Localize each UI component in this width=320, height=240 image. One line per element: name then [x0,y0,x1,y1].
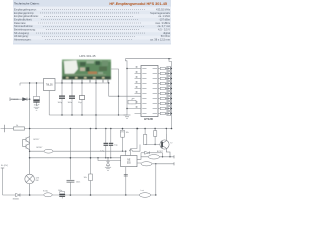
node caps on +5 wire [61,82,62,83]
ground under C1 [34,107,40,110]
fuse F1 [44,193,52,197]
wire supply drop [29,99,31,138]
resistor R6 [143,129,146,145]
wire bottom rail [3,194,156,196]
table header text [14,2,167,6]
LED D16 row7 [158,97,172,101]
diode D1 [23,98,28,101]
svg-text:1N4001: 1N4001 [11,99,19,101]
wire contact row [137,162,174,165]
cap C8 on riser [67,158,75,195]
lamp La1 [25,158,35,195]
diode D2 on rail [16,193,21,196]
oscillator resistor R osc [128,99,136,105]
table rows [14,7,171,41]
diode D3 flyback [141,151,163,156]
relay coil K1 [148,155,159,159]
LED D13 row4 [158,82,172,86]
wire pins to left bus [127,69,135,109]
wire input diode branch [10,98,30,100]
node diode junction [29,98,31,100]
terminal B- [2,168,4,195]
LED D15 row6 [158,92,172,96]
svg-text:1N4001: 1N4001 [13,198,20,200]
transistor Q2 [160,134,170,157]
svg-text:NE: NE [127,159,131,161]
svg-text:100n: 100n [58,190,62,192]
svg-text:T2: T2 [170,142,172,144]
terminal B+ [4,125,6,133]
diode D4 riser [106,158,109,167]
svg-text:HT12D: HT12D [144,117,153,121]
LED D14 row5 [158,87,172,91]
cap C7 [59,192,65,199]
IC left pin stubs [127,69,141,114]
ground under D4 [105,167,111,170]
svg-text:10k: 10k [126,132,129,134]
svg-text:HF-Empfangsmodul HFS 301-45: HF-Empfangsmodul HFS 301-45 [109,2,167,6]
node C1 tap [36,82,37,83]
wire emitter row [30,157,121,159]
svg-text:78L05: 78L05 [46,84,54,87]
svg-text:BC517: BC517 [34,139,40,141]
regulator U1 78L05 [44,79,56,91]
svg-text:ca. 38 x 12,5 mm: ca. 38 x 12,5 mm [150,38,170,42]
svg-text:100n: 100n [76,181,80,183]
wire coil feed [137,157,174,160]
cap C3 electrolytic [68,83,76,115]
wire +5 feed down [95,83,97,129]
switch S3 oval [44,149,53,153]
relay contact S1 [141,162,152,166]
ground under IC left bus [124,115,131,119]
transistor Q1 darlington [23,137,30,159]
LED D12 row3 [158,77,172,81]
wire base row with switch oval [30,145,140,152]
svg-text:100n: 100n [68,102,72,104]
LED D10 row1 [158,67,172,71]
technical data table panel [13,0,171,45]
svg-text:Si 1A: Si 1A [43,190,48,193]
wire base link [145,144,161,146]
wire antenna stub from PCB [111,69,119,115]
svg-text:+5V: +5V [120,132,124,134]
cap C2 electrolytic [58,83,66,115]
wire LED feed elbow [169,59,172,62]
cap C4 [78,83,85,115]
wire data line to IC [109,83,141,96]
node rail junctions [29,128,31,130]
svg-text:100µF: 100µF [34,105,40,107]
wire 555 gnd pin [125,167,127,195]
svg-text:BC547: BC547 [37,147,43,149]
wire 555 top pins [126,129,137,156]
IC pin name marks [142,69,157,114]
svg-text:HFS 301-45: HFS 301-45 [79,54,96,58]
module pins [62,80,108,84]
terminal ticks right [173,155,175,158]
node caps on gnd bus [61,114,62,115]
node LED rail joins [171,68,172,114]
input terminal [9,97,11,101]
resistor R1 [14,127,25,130]
wire left vertical bus [126,66,128,115]
resistor R8 pull-up [121,129,125,152]
svg-text:5W: 5W [36,180,39,182]
resistor R7 [154,129,157,145]
svg-text:B- (0V): B- (0V) [1,165,8,167]
LED D18 row9 [158,107,172,111]
wire 555 left pin [98,158,121,161]
wire regulator input [20,83,44,86]
wire regulator output [55,82,109,84]
wire top rail [126,59,172,66]
LED D17 row8 [158,102,172,106]
resistor R3 [89,129,93,196]
wire LED cathode rail [171,61,173,128]
svg-text:Last: Last [141,189,145,192]
wire riser upper [69,129,71,158]
timer U3 [121,156,137,167]
wire main rail [1,128,172,130]
LED D11 row2 [158,72,172,76]
caps C5 C6 pair [104,129,114,158]
pin number marks [136,66,138,107]
wire contact drop [155,164,157,195]
svg-text:Technische Daten:: Technische Daten: [14,2,40,6]
svg-text:1k: 1k [16,125,18,127]
svg-text:Abmessungen:: Abmessungen: [14,38,32,42]
cap C1 electrolytic [33,83,39,106]
LED D19 row10 [158,112,172,116]
cap C9 marks on riser [124,173,128,175]
wire regulator bottom to gnd bus [48,91,50,116]
IC U2 body [141,66,158,117]
relay contact S2 [139,193,150,198]
svg-text:10k: 10k [84,177,87,179]
wire supply riser [29,83,31,99]
wire gnd bus [49,114,127,116]
